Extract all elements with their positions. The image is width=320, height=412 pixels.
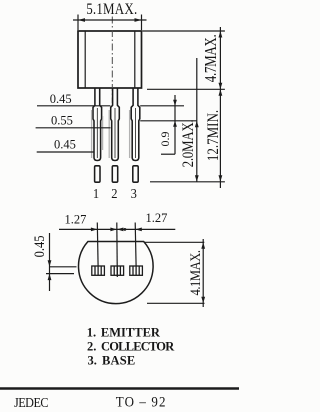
- lead 3 front view: [131, 88, 140, 182]
- svg-text:0.9: 0.9: [158, 132, 172, 147]
- lead scan ghosts: [92, 110, 130, 158]
- svg-text:0.55: 0.55: [51, 114, 73, 128]
- svg-text:4.7MAX.: 4.7MAX.: [203, 35, 221, 83]
- bottom view pad 1: [92, 266, 105, 275]
- legend line 1 emitter: [87, 326, 161, 340]
- svg-text:0.45: 0.45: [50, 92, 72, 106]
- svg-text:COLLECTOR: COLLECTOR: [101, 340, 175, 354]
- svg-text:3: 3: [131, 185, 138, 201]
- svg-text:0.45: 0.45: [54, 138, 76, 152]
- label 0.45 lower with leader: [37, 138, 94, 152]
- footer rule: [0, 387, 239, 390]
- svg-text:2.0MAX.: 2.0MAX.: [180, 120, 197, 168]
- svg-text:4.1MAX.: 4.1MAX.: [187, 250, 203, 295]
- svg-text:1.: 1.: [87, 326, 96, 340]
- bottom view outline: [79, 242, 154, 304]
- dimension 2.0MAX: [180, 58, 199, 182]
- svg-text:EMITTER: EMITTER: [101, 326, 161, 340]
- svg-text:1: 1: [93, 185, 99, 201]
- dimension 4.1MAX: [145, 239, 206, 307]
- extension line flare top: [140, 105, 184, 107]
- dimension line 4.7MAX / 12.7MIN shared: [219, 27, 223, 188]
- bottom view pad 3: [130, 266, 143, 275]
- svg-text:5.1MAX.: 5.1MAX.: [86, 1, 137, 18]
- svg-text:1.27: 1.27: [146, 211, 168, 225]
- extension line body top right: [143, 30, 225, 32]
- svg-text:2: 2: [111, 185, 117, 201]
- extension line lead tips: [150, 181, 225, 183]
- dimension 0.9: [158, 95, 177, 154]
- extension line body bottom right: [147, 88, 225, 90]
- svg-text:TO – 92: TO – 92: [116, 394, 167, 410]
- lead 2 front view: [111, 88, 120, 182]
- svg-text:0.45: 0.45: [31, 235, 47, 257]
- label 0.55 with leader: [36, 114, 111, 128]
- svg-text:BASE: BASE: [102, 353, 135, 367]
- package body front view: [78, 31, 142, 88]
- svg-text:12.7MIN.: 12.7MIN.: [205, 110, 222, 161]
- label 0.45 upper with leader: [37, 92, 110, 106]
- dimension 5.1MAX: [73, 1, 147, 30]
- svg-text:3.: 3.: [88, 353, 97, 367]
- pad extension lines up: [97, 223, 136, 278]
- legend line 2 collector: [87, 340, 175, 354]
- extension line flare bottom: [140, 120, 197, 122]
- dimension 0.45 bottom view: [31, 233, 76, 291]
- centerline front view: [111, 17, 113, 104]
- bottom view pad 2: [111, 266, 124, 275]
- dimension line 1.27 pair: [59, 228, 175, 232]
- legend line 3 base: [88, 353, 136, 367]
- svg-text:JEDEC: JEDEC: [14, 394, 49, 410]
- svg-text:1.27: 1.27: [65, 213, 87, 227]
- lead 1 front view: [93, 88, 102, 182]
- svg-text:2.: 2.: [87, 340, 96, 354]
